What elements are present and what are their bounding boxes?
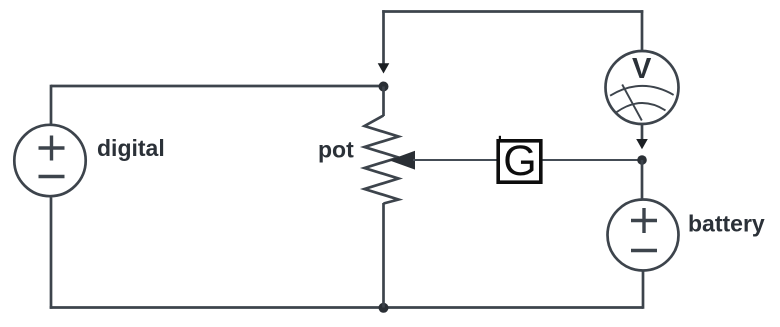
wire battery to bottom [642, 272, 645, 309]
voltmeter lower arc [617, 103, 666, 112]
wire junction to battery [641, 160, 644, 199]
wire wiper to G box [413, 159, 497, 161]
wire left vertical lower [50, 198, 53, 309]
source U1 plus sign [39, 136, 65, 161]
svg-text:digital: digital [97, 135, 165, 161]
source U1 digital circle [14, 125, 85, 196]
svg-text:pot: pot [318, 137, 354, 163]
battery minus sign [631, 249, 657, 252]
arrowhead into right junction [636, 139, 648, 149]
bottom junction dot [379, 303, 389, 313]
wire voltmeter to junction [641, 125, 644, 140]
galvanometer G box corner tick [499, 136, 501, 141]
svg-text:G: G [503, 137, 536, 185]
voltmeter needle [622, 85, 642, 121]
battery plus sign [631, 208, 657, 233]
wire top horizontal [382, 10, 643, 13]
wire pot bottom lead [382, 203, 385, 308]
svg-text:battery: battery [688, 211, 765, 237]
battery circle [608, 200, 679, 271]
potentiometer pot zigzag [365, 116, 399, 204]
voltmeter upper arc [610, 86, 674, 96]
wire top-left vertical drop to pot node [382, 10, 385, 63]
node A junction dot [379, 82, 389, 92]
arrowhead into pot top node [378, 63, 390, 73]
source U1 minus sign [39, 175, 65, 178]
wire left horizontal (node A row) [51, 85, 384, 88]
wire pot top lead [382, 87, 385, 117]
galvanometer G box [498, 141, 541, 182]
right junction dot node B [637, 155, 647, 165]
wire G box to right junction [543, 159, 643, 161]
voltmeter V circle [606, 51, 679, 124]
svg-text:V: V [632, 53, 652, 85]
wire bottom horizontal [50, 306, 643, 309]
wire left vertical upper (to digital source) [50, 85, 53, 124]
wire top-right vertical into voltmeter [641, 10, 644, 51]
wiper arrowhead [389, 151, 415, 170]
